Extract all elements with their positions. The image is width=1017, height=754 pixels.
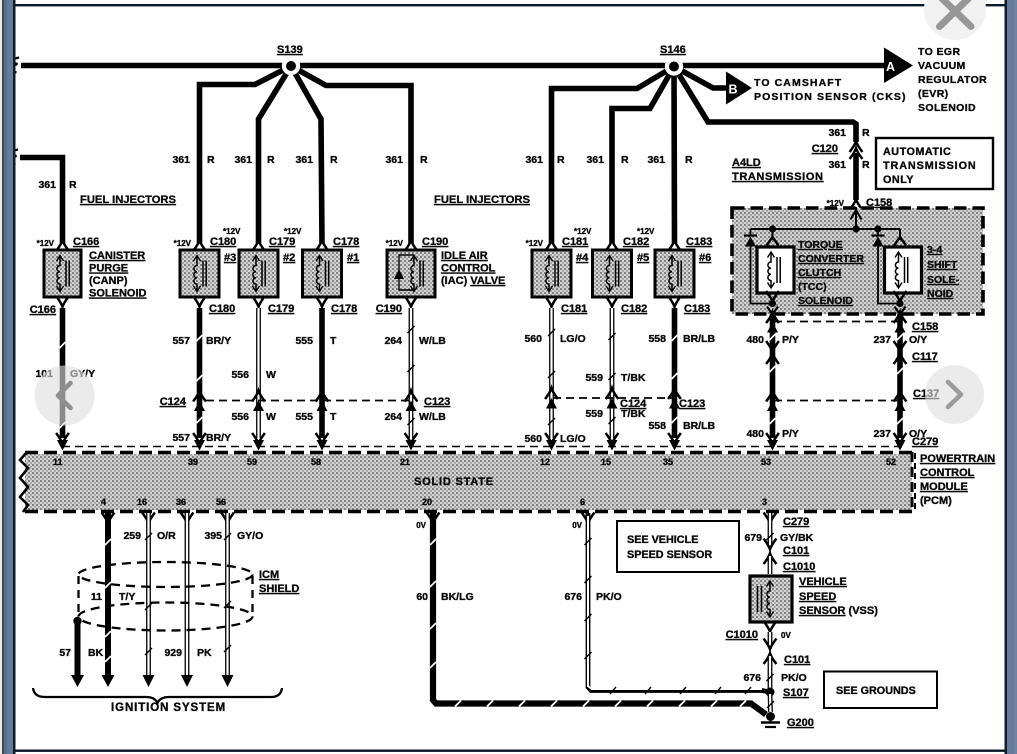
svg-text:C279: C279	[912, 436, 938, 448]
label 480 P/Y lower	[746, 428, 798, 440]
connector C117 pair shift column	[894, 341, 907, 364]
connector entry glyph pin 21	[405, 433, 418, 451]
label 555 T lower	[295, 411, 337, 423]
connector C180 top	[174, 227, 241, 251]
connector C158 top	[827, 197, 893, 210]
svg-text:560: 560	[524, 433, 542, 445]
wire 679 GY/BK pin 3 to C101	[767, 513, 774, 545]
svg-text:SOLID STATE: SOLID STATE	[414, 476, 494, 488]
connector entry glyph pin 35	[668, 433, 681, 451]
svg-text:B: B	[729, 83, 738, 97]
solenoid canister purge CANP	[44, 250, 81, 297]
svg-text:15: 15	[601, 457, 611, 467]
svg-text:556: 556	[231, 411, 249, 423]
TCC module dashed enclosure	[732, 208, 983, 314]
svg-text:POWERTRAIN: POWERTRAIN	[920, 453, 995, 465]
valve idle air control IAC	[387, 250, 435, 297]
connector C179 bottom	[252, 296, 294, 315]
svg-text:57: 57	[59, 647, 71, 659]
fuel injector 1	[303, 250, 360, 297]
wire shift solenoid left loop	[878, 247, 900, 304]
viewer frame bottom border	[16, 750, 1005, 752]
label 558 BR/LB lower	[648, 420, 715, 432]
label 676 PK/O left	[564, 591, 621, 603]
svg-text:CONVERTER: CONVERTER	[798, 253, 864, 265]
wire 60 BK/LG pin 20 ground bus	[430, 513, 766, 715]
svg-text:GY/BK: GY/BK	[780, 532, 814, 544]
svg-text:237: 237	[873, 428, 891, 440]
viewer frame top border	[16, 4, 1005, 6]
svg-text:(CANP): (CANP)	[89, 275, 128, 287]
svg-text:929: 929	[164, 647, 182, 659]
connector exit glyph pin 16	[142, 513, 155, 524]
connector glyphs at C124 C180 column	[193, 391, 206, 411]
svg-text:11: 11	[53, 457, 63, 467]
wire 480 P/Y TCC solenoid to PCM pin 53	[770, 314, 776, 438]
fuel injector 3	[180, 250, 236, 297]
svg-text:TO CAMSHAFT: TO CAMSHAFT	[754, 77, 842, 89]
connector C179 top	[252, 227, 302, 251]
svg-text:C166: C166	[30, 304, 56, 316]
label ICM SHIELD	[259, 569, 299, 595]
wire 101 GY/Y canister purge to PCM pin 11	[60, 308, 66, 438]
connector glyphs at C123 C190 column	[405, 391, 418, 411]
viewer frame left bar	[0, 0, 16, 754]
label 11 T/Y	[91, 591, 135, 603]
svg-text:11: 11	[91, 591, 102, 603]
connector C117 pair TCC column	[766, 341, 779, 364]
label VEHICLE SPEED SENSOR (VSS)	[799, 576, 878, 617]
label 555 T upper	[295, 335, 337, 347]
svg-text:W: W	[266, 369, 276, 381]
diode D1 TCC clamp	[744, 229, 757, 247]
svg-text:C120: C120	[812, 143, 838, 155]
splice S139	[277, 44, 303, 56]
svg-text:LG/O: LG/O	[560, 433, 586, 445]
svg-text:(PCM): (PCM)	[920, 495, 952, 507]
svg-text:C117: C117	[912, 351, 938, 363]
svg-text:S139: S139	[277, 44, 303, 56]
svg-text:361: 361	[38, 179, 56, 191]
wire 361 R from C120 to C158	[853, 153, 859, 200]
label TORQUE CONVERTER CLUTCH (TCC) SOLENOID	[798, 239, 864, 307]
wire 264 W/LB IAC valve to PCM pin 21	[408, 308, 415, 438]
solenoid 3-4 shift	[885, 247, 922, 293]
wire 558 BR/LB injector 6 to PCM pin 35	[672, 308, 678, 438]
svg-text:#5: #5	[637, 252, 649, 264]
svg-text:361: 361	[234, 154, 252, 166]
ground G200	[761, 712, 814, 729]
svg-text:VACUUM: VACUUM	[918, 60, 966, 72]
label 557 BR/Y upper	[172, 335, 231, 347]
svg-text:SHIELD: SHIELD	[259, 583, 299, 595]
connector glyphs C137 shift column	[894, 391, 907, 411]
svg-text:AUTOMATIC: AUTOMATIC	[883, 146, 951, 158]
svg-text:R: R	[69, 179, 77, 191]
svg-text:C182: C182	[623, 236, 649, 248]
svg-text:SEE VEHICLE: SEE VEHICLE	[627, 534, 698, 546]
svg-text:16: 16	[137, 497, 147, 507]
svg-text:IGNITION SYSTEM: IGNITION SYSTEM	[111, 702, 226, 714]
svg-text:T: T	[330, 335, 337, 347]
connector exit glyph pin 6	[582, 513, 595, 524]
svg-text:SOLENOID: SOLENOID	[918, 102, 976, 114]
svg-text:0V: 0V	[416, 521, 426, 530]
wire S146 branch to C182 column	[612, 67, 674, 244]
svg-text:676: 676	[564, 591, 582, 603]
connector C181 bottom	[545, 296, 587, 315]
svg-text:T/BK: T/BK	[621, 372, 646, 384]
svg-text:C124: C124	[160, 396, 187, 408]
svg-text:W: W	[266, 411, 276, 423]
svg-text:361: 361	[586, 154, 604, 166]
svg-text:39: 39	[188, 457, 198, 467]
connector C190 bottom	[376, 296, 418, 315]
svg-text:BK/LG: BK/LG	[441, 591, 474, 603]
svg-text:361: 361	[385, 154, 403, 166]
connector exit glyph pin 3	[764, 513, 777, 524]
brace ignition system	[33, 688, 282, 703]
svg-text:480: 480	[746, 334, 764, 346]
svg-text:SPEED SENSOR: SPEED SENSOR	[627, 549, 712, 561]
svg-text:PURGE: PURGE	[89, 263, 128, 275]
label 60 BK/LG	[416, 591, 473, 603]
connector C1010 upper	[770, 556, 815, 574]
svg-text:SEE GROUNDS: SEE GROUNDS	[836, 685, 916, 697]
svg-text:*12V: *12V	[637, 227, 655, 236]
wire pin 4 ignition	[102, 513, 115, 687]
svg-text:C190: C190	[422, 236, 448, 248]
svg-text:C178: C178	[331, 303, 357, 315]
svg-text:259: 259	[123, 530, 141, 542]
svg-text:REGULATOR: REGULATOR	[918, 74, 987, 86]
svg-text:35: 35	[663, 457, 673, 467]
svg-text:361: 361	[172, 154, 190, 166]
connector glyphs at C124 C182 column	[606, 388, 619, 408]
label 237 O/Y upper	[873, 334, 927, 346]
svg-text:60: 60	[416, 591, 428, 603]
svg-text:R: R	[685, 154, 693, 166]
svg-text:12: 12	[540, 457, 550, 467]
svg-text:S107: S107	[783, 687, 809, 699]
svg-text:PK/O: PK/O	[781, 672, 807, 684]
svg-text:TORQUE: TORQUE	[798, 239, 843, 251]
wire S146 branch to camshaft position sensor	[674, 67, 727, 89]
svg-text:P/Y: P/Y	[782, 428, 799, 440]
nav button previous	[35, 366, 95, 426]
connector C190 top	[386, 236, 449, 251]
svg-text:*12V: *12V	[386, 239, 404, 248]
connector C1010 lower	[726, 621, 792, 645]
wire 560 LG/O injector 4 to PCM pin 12	[548, 308, 555, 438]
svg-text:TRANSMISSION: TRANSMISSION	[883, 160, 977, 172]
svg-text:395: 395	[204, 530, 222, 542]
splice S139 dot	[282, 57, 300, 75]
wire S139 branch to C190 column	[291, 66, 411, 243]
svg-text:FUEL INJECTORS: FUEL INJECTORS	[80, 194, 176, 206]
svg-text:C182: C182	[621, 303, 647, 315]
label 101 GY/Y	[35, 368, 95, 380]
wire S139 branch to C179 column	[259, 66, 292, 243]
wire pin 16 259 O/R	[143, 513, 155, 687]
label 676 PK/O right	[743, 672, 806, 684]
svg-text:T/Y: T/Y	[119, 591, 135, 603]
connector line C158 dashed	[774, 321, 900, 323]
svg-text:(TCC): (TCC)	[798, 281, 827, 293]
labels 361 R column C183	[647, 154, 693, 166]
label 237 O/Y lower	[873, 428, 927, 440]
svg-text:CONTROL: CONTROL	[920, 467, 975, 479]
label 559 T/BK upper	[585, 372, 645, 384]
labels 361 R column C179	[234, 154, 275, 166]
labels 361 R column C190	[385, 154, 428, 166]
label 361 R below C120	[828, 159, 870, 171]
svg-text:SOLENOID: SOLENOID	[89, 288, 147, 300]
svg-text:#1: #1	[347, 252, 359, 264]
svg-text:56: 56	[216, 497, 226, 507]
svg-text:C123: C123	[424, 396, 450, 408]
label 264 W/LB upper	[384, 335, 446, 347]
svg-text:TRANSMISSION: TRANSMISSION	[732, 171, 824, 183]
connector C166 bottom	[30, 296, 69, 316]
svg-text:557: 557	[172, 335, 190, 347]
svg-text:0V: 0V	[781, 631, 791, 640]
svg-text:21: 21	[400, 457, 410, 467]
connector glyphs C158 TCC column	[766, 312, 779, 332]
connector flare into TCC solenoid	[767, 229, 779, 246]
svg-text:SOLENOID: SOLENOID	[798, 295, 853, 307]
wire TCC internal distribution	[751, 228, 901, 230]
svg-text:C101: C101	[784, 654, 810, 666]
splice S146	[660, 44, 686, 56]
svg-text:C124: C124	[620, 398, 647, 410]
svg-text:C166: C166	[73, 236, 99, 248]
svg-text:*12V: *12V	[174, 239, 192, 248]
connector entry glyph pin 53	[766, 433, 779, 451]
svg-text:R: R	[557, 154, 565, 166]
svg-text:C179: C179	[268, 303, 294, 315]
connector entry glyph pin 59	[252, 433, 265, 451]
svg-text:BK: BK	[88, 647, 104, 659]
svg-text:PK/O: PK/O	[596, 591, 622, 603]
label 259 O/R	[123, 530, 176, 542]
note box AUTOMATIC TRANSMISSION ONLY	[876, 138, 993, 189]
connector flare below TCC solenoid	[766, 291, 779, 315]
svg-text:CANISTER: CANISTER	[89, 250, 145, 262]
connector flare into 3-4 shift solenoid	[894, 229, 906, 246]
connector entry glyph pin 39	[193, 433, 206, 451]
svg-text:C183: C183	[684, 303, 710, 315]
svg-text:#4: #4	[576, 252, 589, 264]
fuel injector 5	[593, 250, 650, 297]
connector C180 bottom	[193, 296, 235, 315]
wire 676 PK/O pin 6 to splice S107	[585, 513, 771, 694]
svg-text:36: 36	[176, 497, 186, 507]
connector C183 bottom	[668, 296, 710, 315]
connector entry glyph pin 15	[606, 433, 619, 451]
svg-text:R: R	[330, 154, 338, 166]
wire 556 W injector 2 to PCM pin 59	[256, 308, 261, 438]
wire 559 T/BK injector 5 to PCM pin 15	[609, 308, 616, 438]
svg-text:4: 4	[101, 497, 106, 507]
svg-text:C1010: C1010	[726, 629, 758, 641]
svg-text:*12V: *12V	[574, 227, 592, 236]
svg-text:SPEED: SPEED	[799, 591, 836, 603]
connector entry glyph pin 58	[316, 433, 329, 451]
svg-text:53: 53	[761, 457, 771, 467]
svg-text:ICM: ICM	[259, 569, 279, 581]
svg-text:C181: C181	[562, 236, 588, 248]
svg-text:264: 264	[384, 335, 402, 347]
label 395 GY/O	[204, 530, 263, 542]
svg-text:361: 361	[647, 154, 665, 166]
svg-text:C183: C183	[686, 236, 712, 248]
connector C166 top	[37, 236, 100, 251]
PCM module solid state band	[20, 452, 912, 512]
fuel injector 2	[239, 250, 295, 297]
wire entry into TCC enclosure	[851, 207, 862, 229]
svg-text:#3: #3	[224, 252, 236, 264]
fuel injector 4	[532, 250, 589, 297]
svg-text:O/R: O/R	[157, 530, 176, 542]
connector C178 top	[316, 236, 360, 251]
svg-text:BR/Y: BR/Y	[206, 335, 231, 347]
label CANISTER PURGE (CANP) SOLENOID	[89, 250, 147, 300]
labels 361 R column C181	[525, 154, 565, 166]
labels 361 R column C180	[172, 154, 215, 166]
label 679 GY/BK	[744, 532, 813, 544]
label 57 BK	[59, 647, 103, 659]
svg-text:BR/LB: BR/LB	[683, 420, 715, 432]
wire 557 BR/Y injector 3 to PCM pin 39	[197, 308, 203, 438]
svg-text:59: 59	[247, 457, 257, 467]
connector glyphs C158 shift column	[894, 312, 907, 332]
svg-text:58: 58	[311, 457, 321, 467]
svg-text:C279: C279	[783, 516, 809, 528]
label 480 P/Y upper	[746, 334, 798, 346]
svg-text:679: 679	[744, 532, 762, 544]
wire 676 PK/O to splice S107	[767, 656, 774, 688]
arrow A to EGR vacuum regulator	[884, 46, 987, 114]
solenoid TCC torque converter clutch	[757, 247, 794, 293]
fuel injector 6	[655, 250, 711, 297]
svg-text:560: 560	[524, 333, 542, 345]
svg-text:C180: C180	[209, 303, 235, 315]
svg-text:559: 559	[585, 408, 603, 420]
close button	[924, 0, 986, 40]
svg-text:(EVR): (EVR)	[918, 88, 949, 100]
svg-text:R: R	[862, 159, 870, 171]
svg-text:FUEL INJECTORS: FUEL INJECTORS	[434, 194, 530, 206]
connector line C124 C123 dashed	[206, 398, 672, 401]
wire S139 branch to C180 column	[200, 66, 292, 243]
svg-text:R: R	[621, 154, 629, 166]
connector exit glyph pin 4	[102, 513, 115, 524]
svg-text:C181: C181	[561, 303, 587, 315]
label 3-4 SHIFT SOLENOID	[927, 244, 960, 300]
labels 361 R column C182	[586, 154, 629, 166]
svg-text:G200: G200	[787, 717, 814, 729]
wire 237 O/Y shift solenoid to PCM pin 52	[897, 314, 903, 438]
label 556 W lower	[231, 411, 276, 423]
sensor vehicle speed VSS	[750, 576, 792, 622]
svg-text:361: 361	[828, 159, 846, 171]
svg-text:C180: C180	[210, 236, 236, 248]
svg-text:W/LB: W/LB	[419, 335, 446, 347]
svg-text:C190: C190	[376, 303, 402, 315]
svg-text:SENSOR (VSS): SENSOR (VSS)	[799, 605, 878, 617]
svg-text:*12V: *12V	[526, 239, 544, 248]
svg-text:C101: C101	[783, 545, 809, 557]
svg-text:PK: PK	[197, 647, 212, 659]
arrow B to camshaft position sensor (CKS)	[726, 72, 907, 105]
label 560 LG/O upper	[524, 333, 585, 345]
connector glyphs at C124 C178 column	[316, 391, 329, 411]
label 361 R at C120	[828, 127, 870, 139]
svg-text:POSITION SENSOR (CKS): POSITION SENSOR (CKS)	[754, 91, 907, 103]
note box SEE GROUNDS	[824, 672, 937, 709]
connector line C279 dashed full width	[62, 446, 906, 448]
svg-text:IDLE AIR: IDLE AIR	[441, 250, 488, 262]
connector glyphs C137 TCC column	[766, 391, 779, 411]
label A4LD TRANSMISSION	[732, 157, 824, 183]
svg-text:3-4: 3-4	[927, 244, 942, 256]
svg-text:0V: 0V	[572, 521, 582, 530]
connector exit glyph pin 36	[181, 513, 194, 524]
connector glyphs at C124 C181 column	[545, 388, 558, 408]
svg-text:C158: C158	[912, 321, 938, 333]
connector exit glyph pin 20	[427, 513, 440, 524]
svg-text:(IAC) VALVE: (IAC) VALVE	[441, 275, 505, 287]
label POWERTRAIN CONTROL MODULE (PCM)	[915, 453, 995, 512]
connector C182 bottom	[606, 296, 648, 315]
svg-text:GY/O: GY/O	[237, 530, 263, 542]
label 557 BR/Y lower	[172, 432, 231, 444]
svg-text:R: R	[420, 154, 428, 166]
svg-text:R: R	[267, 154, 275, 166]
splice S107	[766, 687, 809, 699]
label 361 R canister purge feed	[38, 179, 77, 191]
nav button next	[925, 365, 984, 424]
svg-text:*12V: *12V	[284, 227, 302, 236]
svg-text:*12V: *12V	[37, 239, 55, 248]
svg-text:6: 6	[580, 497, 585, 507]
svg-text:NOID: NOID	[927, 288, 954, 300]
wire S146 branch to A4LD transmission C120	[674, 67, 856, 143]
note box SEE VEHICLE SPEED SENSOR	[617, 521, 739, 572]
connector C120	[812, 141, 863, 159]
node junction dots TCC	[769, 225, 882, 232]
svg-text:559: 559	[585, 372, 603, 384]
connector C182 top	[606, 227, 655, 251]
wire 57 BK shield drain	[71, 617, 84, 687]
svg-text:A4LD: A4LD	[732, 157, 761, 169]
wire main power bus 361 R	[11, 58, 886, 73]
svg-text:TO EGR: TO EGR	[918, 46, 960, 58]
svg-text:264: 264	[384, 411, 402, 423]
connector C181 top	[526, 227, 592, 251]
svg-text:#6: #6	[699, 252, 711, 264]
svg-text:#2: #2	[283, 252, 295, 264]
svg-text:T: T	[330, 411, 337, 423]
svg-text:52: 52	[886, 457, 896, 467]
wire TCC left loop	[751, 247, 773, 304]
connector exit glyph pin 56	[221, 513, 234, 524]
wire pin 36 929 PK	[181, 513, 193, 687]
viewer frame right bar	[1005, 0, 1017, 754]
label 559 T/BK lower	[585, 408, 645, 420]
wire S146 branch to C181 column	[552, 67, 675, 244]
